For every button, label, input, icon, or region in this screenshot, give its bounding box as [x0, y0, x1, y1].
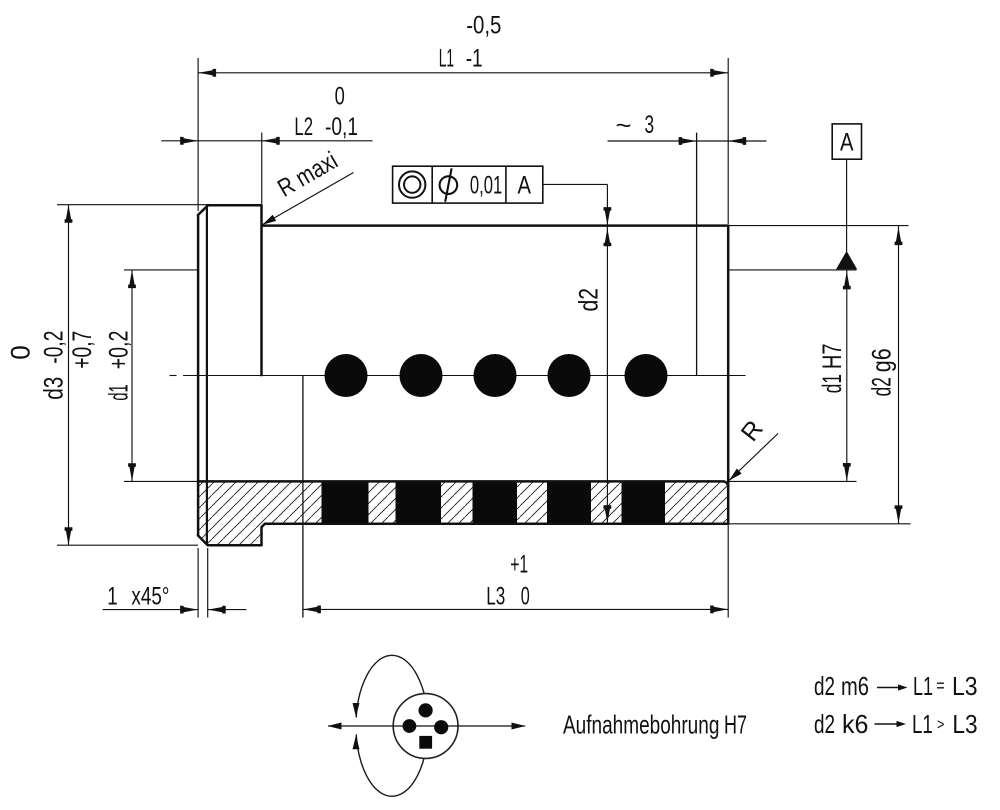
svg-text:d2: d2	[814, 671, 835, 701]
svg-text:L3: L3	[486, 583, 505, 611]
svg-text:A: A	[840, 129, 854, 157]
svg-text:L3: L3	[952, 709, 977, 739]
centerline	[183, 375, 746, 377]
svg-text:H7: H7	[724, 710, 747, 740]
arrow in formula line 2	[875, 723, 899, 725]
svg-text:L1: L1	[439, 45, 454, 73]
svg-text:~: ~	[616, 112, 632, 140]
svg-text:-0,5: -0,5	[466, 11, 501, 39]
svg-text:L2: L2	[294, 113, 313, 141]
flange top edge	[207, 204, 262, 207]
svg-text:+0,7: +0,7	[67, 331, 97, 369]
ball 1	[325, 354, 368, 397]
svg-text:d2: d2	[867, 377, 897, 396]
flange right face	[260, 204, 263, 376]
svg-text:x45°: x45°	[131, 583, 169, 611]
L2 dimension	[261, 133, 263, 205]
svg-text:k6: k6	[842, 709, 868, 739]
seal/ball-track block 5 (filled)	[622, 481, 666, 523]
bore bottom edge with corner radius R	[198, 481, 728, 486]
svg-text:L3: L3	[952, 671, 978, 701]
body right end face	[727, 225, 730, 525]
~3 dimension	[608, 140, 767, 142]
d3 dimension (left outer)	[57, 204, 207, 206]
svg-text:d1: d1	[104, 384, 134, 400]
svg-text:+0,2: +0,2	[104, 331, 134, 370]
bore step edge / L3 extension line	[302, 376, 304, 618]
svg-text:H7: H7	[817, 343, 847, 369]
svg-text:-0,1: -0,1	[325, 113, 358, 141]
concentricity symbol	[399, 171, 425, 197]
svg-text:0,01: 0,01	[470, 172, 502, 200]
1x45 chamfer dimension	[197, 548, 199, 618]
ball dot top	[419, 703, 433, 717]
svg-text:g6: g6	[867, 348, 897, 372]
svg-text:+1: +1	[510, 550, 528, 578]
d1 H7 dimension (right)	[728, 269, 856, 271]
d2 dimension with FCF leader	[543, 183, 608, 185]
flange step vertical	[260, 527, 263, 546]
d2 g6 dimension (far right)	[728, 225, 908, 227]
svg-text:0: 0	[335, 83, 345, 111]
svg-text:=: =	[936, 676, 944, 696]
svg-text:L1: L1	[912, 709, 933, 739]
ball 5	[625, 354, 668, 397]
svg-text:R: R	[736, 415, 769, 446]
svg-text:0: 0	[6, 345, 36, 360]
svg-text:L1: L1	[913, 671, 933, 701]
ball 3	[474, 354, 517, 397]
arrow in formula line 1	[877, 687, 900, 689]
axis line through circle	[328, 725, 525, 727]
svg-text:R maxi: R maxi	[273, 146, 342, 202]
svg-text:-1: -1	[466, 45, 483, 73]
flange top-left chamfer	[197, 205, 208, 215]
flange chamfer inner edge	[206, 204, 208, 544]
svg-text:d3: d3	[39, 377, 69, 400]
svg-text:0: 0	[521, 583, 530, 611]
ball dot left	[403, 719, 417, 733]
diameter symbol	[440, 176, 458, 194]
centerline dash	[170, 375, 177, 377]
body top edge	[262, 224, 729, 227]
d1 dimension (left inner)	[124, 269, 198, 271]
loop direction arrows	[353, 703, 360, 717]
seal/ball-track block 2 (filled)	[396, 481, 442, 523]
ball dot bottom (square)	[419, 736, 432, 749]
svg-text:3: 3	[645, 111, 655, 139]
bushing cross-section circle	[393, 694, 458, 759]
svg-text:d2: d2	[814, 709, 835, 739]
datum A triangle	[836, 251, 857, 269]
ball 4	[548, 354, 591, 397]
flange bottom-left chamfer	[197, 535, 208, 546]
seal/ball-track block 1 (filled)	[322, 481, 369, 523]
svg-text:A: A	[518, 172, 532, 200]
flange left face	[197, 215, 200, 536]
R maxi leader	[262, 173, 354, 226]
seal/ball-track block 4 (filled)	[547, 481, 591, 523]
svg-text:>: >	[937, 717, 944, 734]
svg-text:d1: d1	[817, 374, 847, 393]
datum A frame	[832, 124, 861, 159]
svg-text:-0,2: -0,2	[39, 331, 69, 364]
flange bottom edge	[207, 544, 262, 547]
loop gap mask	[347, 718, 365, 735]
L1 dimension: extension lines, dim line, arrows	[197, 58, 199, 211]
sectioned lower half of bushing (hatched region)	[198, 481, 728, 545]
ball dot right	[434, 720, 448, 734]
L3 dimension	[727, 525, 729, 618]
svg-text:d2: d2	[574, 288, 604, 312]
seal/ball-track block 3 (filled)	[473, 481, 518, 523]
svg-text:1: 1	[107, 583, 117, 611]
svg-text:m6: m6	[841, 671, 869, 701]
datum A stem	[846, 159, 848, 252]
R (corner radius) leader	[729, 434, 778, 481]
retaining-groove edge near right end	[696, 133, 698, 376]
feature control frame box	[393, 166, 543, 203]
recirculation loop ellipse	[356, 655, 428, 796]
ball 2	[400, 354, 443, 397]
svg-text:Aufnahmebohrung: Aufnahmebohrung	[563, 710, 719, 740]
sleeve bottom edge	[265, 523, 729, 526]
flange step chamfer	[261, 523, 265, 527]
